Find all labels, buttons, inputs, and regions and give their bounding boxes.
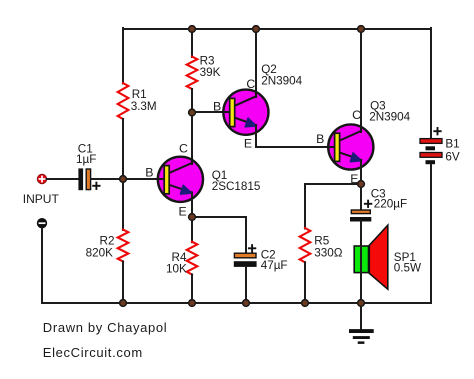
wire R4 bottom to bottom rail [191,275,193,304]
svg-text:E: E [179,204,187,218]
junction bottom rail / speaker and ground [358,300,365,307]
resistor R5 [300,228,311,262]
wire Q3 emitter down to node D [360,160,362,185]
wire speaker to bottom rail [360,244,362,303]
wire input minus down to bottom rail [41,228,43,303]
svg-text:1µF: 1µF [76,153,96,166]
junction bottom rail / C2 [243,300,250,307]
svg-text:2N3904: 2N3904 [369,110,410,123]
wire input plus to C1 [47,178,79,180]
resistor R3 [187,57,198,90]
svg-text:E: E [244,137,252,151]
resistor R1 [118,83,129,119]
wire node A to Q1 base [123,178,158,180]
transistor Q3 [327,124,373,170]
wire Q2 emitter to Q3 base [256,125,327,147]
svg-text:330Ω: 330Ω [314,247,343,260]
svg-text:6V: 6V [445,151,460,164]
svg-text:2N3904: 2N3904 [261,74,302,87]
wire R3 bottom to node B [191,89,193,113]
label B1 plus polarity [434,128,440,134]
capacitor C2 [234,253,257,267]
svg-text:B: B [145,165,153,179]
label C1 plus polarity [93,183,99,189]
wire node C to C2 [192,217,246,253]
label C2 plus polarity [249,245,255,251]
ground [349,329,374,344]
svg-text:Drawn by Chayapol: Drawn by Chayapol [43,320,168,335]
wire Q1 emitter down to node C [191,192,193,217]
svg-text:2SC1815: 2SC1815 [212,180,261,193]
junction top rail / R3 [189,26,196,33]
wire battery bottom to bottom rail [430,164,432,303]
capacitor C1 [78,168,90,190]
svg-text:B1: B1 [445,137,459,150]
resistor R4 [187,242,198,275]
svg-text:B: B [316,132,324,146]
transistor Q1 [157,156,203,202]
speaker SP1 [354,225,388,289]
input minus terminal [37,219,46,228]
junction node A (C1 / R1 / R2 / Q1 base) [120,176,127,183]
svg-text:C: C [246,77,255,91]
junction bottom rail / R4 [189,300,196,307]
wire left vertical lower (R2 to bottom rail) [122,262,124,304]
wire node B to Q2 base [192,111,222,113]
junction node C (Q1 emitter / R4 / C2) [189,214,196,221]
wire node D to C3 [360,184,362,209]
svg-text:INPUT: INPUT [23,192,60,206]
label C3 plus polarity [365,201,371,207]
svg-text:10K: 10K [166,262,187,275]
wire C2 bottom to bottom rail [245,267,247,303]
capacitor C3 [350,210,371,222]
wire bottom rail [42,302,431,304]
wire C1 to node A [91,178,123,180]
junction node D (Q3 emitter / R5 / C3) [358,181,365,188]
battery B1 [420,139,442,165]
junction node B (R3 / Q2 base / Q1 collector) [189,109,196,116]
wire Q2 collector (top rail down) [255,29,257,96]
svg-text:820K: 820K [86,246,114,259]
resistor R2 [118,230,129,262]
junction bottom rail / R5 [302,300,309,307]
svg-text:ElecCircuit.com: ElecCircuit.com [43,345,143,360]
wire R5 bottom to bottom rail [304,262,306,303]
svg-text:220µF: 220µF [374,198,407,211]
svg-text:3.3M: 3.3M [131,100,157,113]
svg-text:C: C [352,108,361,122]
wire left vertical middle (R1 to R2 through node A) [122,119,124,230]
junction top rail / Q2 collector [253,26,260,33]
wire node D to R5 [305,184,361,229]
svg-text:47µF: 47µF [261,259,288,272]
wire ground stem [360,303,362,329]
junction bottom rail / R2 [120,300,127,307]
junction top rail / Q3 collector [358,26,365,33]
svg-text:B: B [213,99,221,113]
svg-text:0.5W: 0.5W [394,262,421,275]
wire R3 top (top rail down) [191,29,193,57]
wire Q3 collector (top rail down) [360,29,362,131]
wire left vertical upper (top rail to R1) [122,28,124,84]
svg-text:R5: R5 [314,234,329,247]
svg-text:C: C [179,141,188,155]
transistor Q2 [222,89,269,135]
wire Q1 collector (node B down to Q1) [191,113,193,164]
wire node C to R4 [191,217,193,242]
wire top rail [123,28,431,30]
svg-text:39K: 39K [200,66,221,79]
wire C3 to speaker [360,222,362,246]
input plus terminal [37,174,46,183]
wire battery top (top rail down to B1) [430,28,432,138]
